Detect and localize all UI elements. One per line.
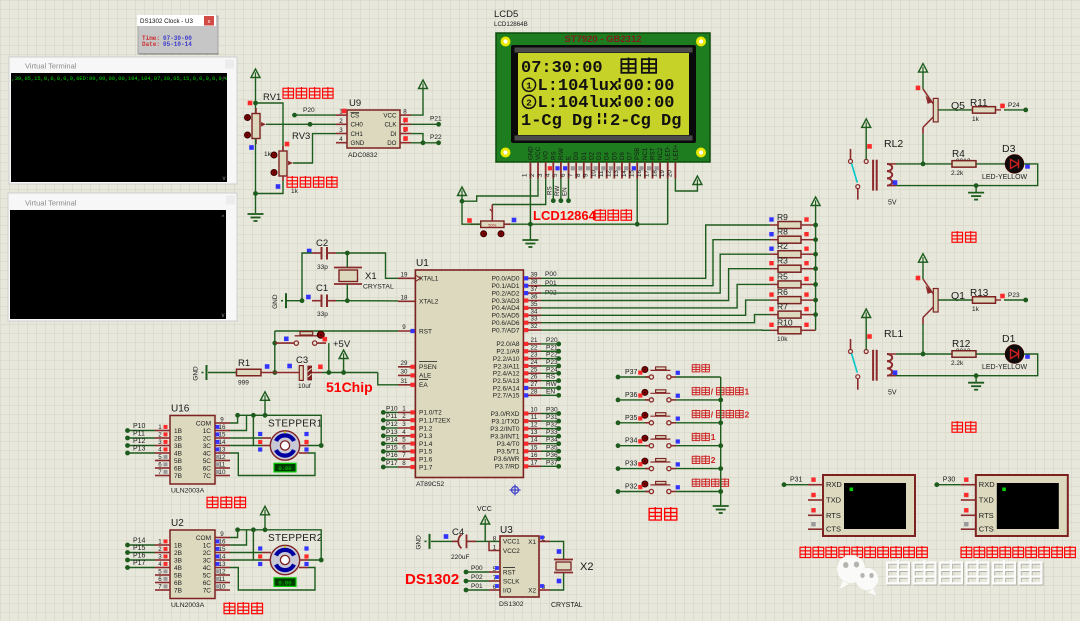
svg-text:12: 12: [219, 569, 226, 576]
svg-text:R9: R9: [777, 212, 788, 222]
svg-text:,30,05,15,0,0,0,0,0,0ED:00,00,: ,30,05,15,0,0,0,0,0,0ED:00,00,00,00,104,…: [12, 76, 232, 82]
svg-text:R8: R8: [777, 227, 788, 237]
wire to LED D1: [976, 353, 1006, 355]
svg-text:8: 8: [493, 535, 497, 542]
svg-text:1: 1: [745, 386, 750, 396]
power symbol for Q1: [919, 254, 928, 279]
svg-text:5: 5: [402, 437, 406, 444]
svg-text:TXD: TXD: [826, 496, 842, 505]
reset wire to RST: [275, 330, 398, 332]
svg-text:36: 36: [531, 294, 538, 301]
svg-text:10: 10: [531, 407, 538, 414]
svg-text:4B: 4B: [174, 565, 182, 572]
svg-text:P0.4/AD4: P0.4/AD4: [492, 305, 520, 312]
wire DI to DO row: [411, 134, 423, 143]
power arrow for STEPPER1: [261, 392, 270, 416]
svg-text:P2.1/A9: P2.1/A9: [496, 349, 520, 356]
svg-text:P1.0/T2: P1.0/T2: [419, 410, 442, 417]
svg-text:6: 6: [402, 444, 406, 451]
svg-text:14: 14: [531, 437, 538, 444]
svg-text:P0.6/AD6: P0.6/AD6: [492, 320, 520, 327]
svg-text:1: 1: [493, 545, 497, 552]
svg-text:P2.3/A11: P2.3/A11: [493, 363, 520, 370]
net flag RS (LCD pin4): [552, 179, 554, 201]
wire RV1 wiper to ADC CH0: [266, 123, 336, 125]
push button P37: [616, 367, 721, 380]
svg-text:CTS: CTS: [826, 525, 841, 534]
net flag P20: [292, 113, 297, 118]
gnd bus under LCD: [504, 223, 668, 225]
svg-text:5V: 5V: [888, 390, 897, 397]
svg-text:11: 11: [219, 576, 226, 583]
ground for C4: [416, 534, 453, 550]
svg-text:P24: P24: [1008, 102, 1020, 109]
svg-text:26: 26: [531, 374, 538, 381]
svg-text:R6: R6: [777, 287, 788, 297]
push button P33: [616, 458, 721, 471]
svg-text:2: 2: [339, 118, 343, 125]
svg-text:15: 15: [531, 444, 538, 451]
svg-text:P00: P00: [471, 565, 483, 572]
svg-text:17: 17: [531, 459, 538, 466]
vertical +5V branch at reset: [274, 331, 276, 373]
svg-text:Virtual Terminal: Virtual Terminal: [25, 199, 77, 208]
power arrow for STEPPER2: [261, 506, 270, 530]
svg-text:5: 5: [158, 454, 162, 461]
label 光强模拟 (RV1): [283, 87, 294, 98]
svg-text:ALE: ALE: [419, 373, 432, 380]
svg-text:3: 3: [158, 554, 162, 561]
wire coil to R12: [896, 353, 952, 355]
svg-text:00:00: 00:00: [624, 94, 675, 113]
svg-text:CRYSTAL: CRYSTAL: [551, 602, 583, 609]
svg-text:P3.7/RD: P3.7/RD: [495, 464, 520, 471]
svg-text:3: 3: [158, 439, 162, 446]
svg-text:X1: X1: [528, 539, 536, 546]
svg-text:R5: R5: [777, 271, 788, 281]
svg-text:EA: EA: [419, 382, 428, 389]
ULN2003A driver U2: [155, 518, 230, 609]
svg-text:8: 8: [402, 460, 406, 467]
svg-text:STEPPER2: STEPPER2: [268, 533, 323, 544]
svg-text:DS1302 Clock - U3: DS1302 Clock - U3: [140, 18, 194, 25]
svg-text:16: 16: [219, 539, 226, 546]
svg-text:32: 32: [531, 323, 538, 330]
ground for RL2: [968, 186, 984, 200]
power symbol above RV1: [251, 69, 260, 114]
svg-text:P3.4/T0: P3.4/T0: [497, 441, 520, 448]
virtual terminal instrument (P30): [961, 475, 1068, 536]
svg-text:COM: COM: [196, 535, 211, 542]
stepper motor STEPPER1: [258, 419, 323, 461]
svg-text:P36: P36: [546, 452, 558, 459]
svg-text:RTS: RTS: [826, 511, 841, 520]
svg-text:U9: U9: [349, 98, 361, 109]
svg-text:P0.2/AD2: P0.2/AD2: [492, 290, 520, 297]
svg-text:12: 12: [606, 170, 613, 177]
power arrow for U9 VCC: [411, 80, 428, 115]
svg-text:18: 18: [401, 294, 408, 301]
svg-text:35: 35: [531, 301, 538, 308]
LED D3 LED-YELLOW: [982, 143, 1030, 181]
svg-text:RS: RS: [550, 151, 557, 160]
svg-text:D5: D5: [611, 152, 618, 160]
svg-text:Virtual Terminal: Virtual Terminal: [25, 62, 77, 71]
ground for keypad: [713, 506, 729, 513]
svg-text:D2: D2: [588, 152, 595, 160]
svg-text:14: 14: [219, 439, 226, 446]
svg-text:39: 39: [531, 271, 538, 278]
svg-text:5: 5: [158, 569, 162, 576]
svg-text:2: 2: [158, 432, 162, 439]
svg-text:^: ^: [223, 77, 226, 83]
label for P34: [692, 432, 715, 442]
svg-text:LED-: LED-: [665, 146, 672, 160]
label 光强模拟 (RV3): [287, 176, 298, 187]
label 灯光 (top): [952, 231, 963, 242]
svg-text:D7: D7: [627, 152, 634, 160]
svg-text:16: 16: [531, 452, 538, 459]
resistor R13 (base): [938, 288, 1005, 313]
svg-text:P1.3: P1.3: [419, 433, 433, 440]
svg-text:13: 13: [531, 429, 538, 436]
svg-text:VO: VO: [543, 151, 550, 160]
svg-text:P11: P11: [386, 413, 397, 420]
svg-text:R1: R1: [238, 358, 250, 369]
wire RV3 bottom: [256, 181, 284, 194]
svg-text:6: 6: [158, 576, 162, 583]
svg-text:D3: D3: [1002, 143, 1016, 155]
svg-text:5B: 5B: [174, 458, 182, 465]
LED return wire: [896, 354, 1038, 376]
svg-text:P20: P20: [303, 107, 315, 114]
svg-text:DO: DO: [387, 140, 396, 147]
svg-text:EN: EN: [546, 388, 555, 395]
svg-text:P1.1/T2EX: P1.1/T2EX: [419, 418, 451, 425]
svg-text:1k: 1k: [264, 151, 272, 158]
resistor R6: [769, 287, 815, 304]
svg-text:D3: D3: [596, 152, 603, 160]
svg-text:7: 7: [567, 173, 574, 177]
label for P35: [692, 409, 749, 419]
svg-text:C1: C1: [316, 283, 328, 294]
rpm display for STEPPER2: [274, 578, 296, 587]
svg-text:VCC1: VCC1: [503, 539, 520, 546]
net flag P31: [782, 477, 808, 488]
wire button right to +5V row: [328, 343, 330, 372]
transistor Q1 (PNP 9012): [916, 276, 965, 324]
label 遮光帘 (2): [224, 602, 235, 614]
svg-text:LCD5: LCD5: [494, 9, 518, 20]
svg-text:18: 18: [651, 170, 658, 177]
LCD pin stubs and numbers: [522, 162, 676, 179]
svg-text:16: 16: [219, 424, 226, 431]
svg-text:14: 14: [219, 554, 226, 561]
power symbol for Q5: [919, 64, 928, 89]
potentiometer RV3: [271, 131, 310, 195]
svg-text:LED+: LED+: [672, 144, 679, 160]
svg-text:GND: GND: [351, 140, 365, 147]
net flags P10..P13: [125, 423, 155, 455]
svg-text:3C: 3C: [203, 443, 212, 450]
LCD12864 display module LCD5: [496, 33, 710, 162]
svg-text:2B: 2B: [174, 435, 182, 442]
svg-text:2.2k: 2.2k: [951, 360, 964, 367]
svg-text:D6: D6: [619, 152, 626, 160]
svg-text:7B: 7B: [174, 473, 182, 480]
svg-text:P2.7/A15: P2.7/A15: [493, 393, 520, 400]
svg-text:2-Cg Dg: 2-Cg Dg: [610, 112, 681, 131]
push button (reset): [275, 331, 327, 345]
svg-text:19: 19: [401, 271, 408, 278]
svg-text:27: 27: [531, 381, 538, 388]
svg-text:3: 3: [537, 173, 544, 177]
svg-text:P0.7/AD7: P0.7/AD7: [492, 327, 520, 334]
label 单片机端发送数据监测: [800, 546, 811, 558]
node RV3 bottom join: [253, 191, 258, 196]
svg-text:R3: R3: [777, 256, 788, 266]
svg-text:P3.0/RXD: P3.0/RXD: [491, 411, 520, 418]
net flags P30..P37 on MCU right: [541, 407, 561, 469]
wire to RV3 top: [256, 103, 284, 150]
relay RL2: [873, 138, 903, 207]
svg-text:NC1: NC1: [642, 147, 649, 160]
ADC U9 ADC0832: [336, 98, 411, 159]
svg-text:30: 30: [401, 368, 408, 375]
wire collector down to relay row: [922, 324, 924, 354]
svg-text:RL2: RL2: [884, 138, 903, 150]
ground below RV1: [248, 214, 264, 221]
svg-text:RL1: RL1: [884, 328, 903, 340]
svg-text:3: 3: [339, 127, 343, 134]
svg-text:P23: P23: [1008, 292, 1020, 299]
ground for crystal: [272, 293, 302, 309]
svg-text:X1: X1: [365, 271, 377, 282]
svg-text:7B: 7B: [174, 587, 182, 594]
svg-text:CS: CS: [351, 112, 360, 119]
svg-text:GND: GND: [527, 146, 534, 160]
svg-text:EN: EN: [562, 187, 569, 196]
wire pot left to +V arrow: [458, 187, 481, 224]
svg-text:37: 37: [531, 286, 538, 293]
svg-text:P2.0/A8: P2.0/A8: [496, 341, 520, 348]
svg-text:P17: P17: [133, 560, 146, 567]
svg-text:U3: U3: [500, 525, 513, 536]
svg-text:9: 9: [220, 531, 224, 538]
svg-text:D1: D1: [581, 152, 588, 160]
svg-text:8: 8: [575, 173, 582, 177]
svg-text:1B: 1B: [174, 542, 182, 549]
wire LCD pin20 LED+ to power: [675, 176, 702, 191]
net flag EN (LCD pin6): [568, 179, 570, 201]
wire R1 to C3: [261, 372, 299, 374]
svg-text:P15: P15: [133, 545, 146, 552]
keypad gnd bus: [720, 377, 722, 506]
svg-text:P2.2/A10: P2.2/A10: [493, 356, 520, 363]
svg-text:ADC0832: ADC0832: [348, 152, 378, 159]
svg-text:P1.7: P1.7: [419, 464, 433, 471]
svg-text:1k: 1k: [972, 306, 980, 313]
svg-text:P21: P21: [546, 344, 558, 351]
svg-text:28: 28: [531, 388, 538, 395]
relay switch contact: [849, 339, 869, 390]
svg-text:U16: U16: [171, 404, 190, 415]
svg-text:13: 13: [613, 170, 620, 177]
push button P34: [616, 435, 721, 448]
svg-text:^: ^: [222, 215, 225, 221]
svg-text:07:30:00: 07:30:00: [521, 59, 603, 78]
svg-text:X2: X2: [580, 561, 593, 573]
label for P32: [692, 478, 728, 486]
svg-text:12: 12: [531, 422, 538, 429]
svg-text:2B: 2B: [174, 550, 182, 557]
wire LCD pin3 VO to pot wiper: [492, 179, 545, 205]
svg-text:RS: RS: [546, 374, 556, 381]
svg-text:P02: P02: [471, 574, 483, 581]
svg-text:3B: 3B: [174, 443, 182, 450]
svg-text:P1.5: P1.5: [419, 449, 433, 456]
stepper bus wires: [230, 413, 324, 476]
svg-text:E: E: [566, 156, 573, 160]
svg-text:CLK: CLK: [384, 122, 397, 129]
svg-text:P3.6/WR: P3.6/WR: [493, 456, 519, 463]
svg-text:5B: 5B: [174, 572, 182, 579]
svg-text:2: 2: [526, 97, 532, 108]
svg-text:10: 10: [219, 469, 226, 476]
svg-text:1: 1: [402, 405, 406, 412]
wire LCD pin1 GND down: [529, 179, 531, 225]
svg-text:RV3: RV3: [292, 131, 310, 142]
svg-text:RV1: RV1: [263, 92, 281, 103]
svg-text:P35: P35: [546, 444, 558, 451]
svg-text:X2: X2: [528, 588, 536, 595]
svg-text:U1: U1: [416, 258, 429, 269]
svg-text:13: 13: [219, 447, 226, 454]
svg-text:P00: P00: [545, 271, 557, 278]
svg-text:RW: RW: [554, 186, 561, 196]
svg-text:2C: 2C: [203, 550, 212, 557]
svg-text:2C: 2C: [203, 435, 212, 442]
svg-text:6C: 6C: [203, 580, 212, 587]
node: RV1 top junction: [253, 101, 258, 106]
svg-text:P32: P32: [625, 484, 638, 491]
wire C3 to +5V node: [312, 372, 322, 374]
svg-text:17: 17: [644, 170, 651, 177]
net flag P30: [934, 477, 960, 488]
svg-text:P37: P37: [546, 459, 558, 466]
rpm display for STEPPER1: [274, 463, 296, 472]
svg-text:RTS: RTS: [979, 511, 994, 520]
svg-text:R/W: R/W: [558, 148, 565, 160]
red square RV1 top: [248, 101, 253, 106]
svg-text:P22: P22: [546, 352, 558, 359]
svg-text:2: 2: [529, 173, 536, 177]
capacitor C4 220uF: [444, 527, 476, 561]
svg-text:10: 10: [219, 584, 226, 591]
svg-text:STEPPER1: STEPPER1: [268, 419, 323, 430]
svg-text:P30: P30: [546, 407, 558, 414]
svg-text:15: 15: [628, 170, 635, 177]
svg-text:6: 6: [560, 173, 567, 177]
svg-text:1k: 1k: [972, 116, 980, 123]
svg-text:P1.2: P1.2: [419, 425, 433, 432]
svg-text:+5V: +5V: [333, 339, 351, 350]
svg-text:4C: 4C: [203, 565, 212, 572]
svg-text:9: 9: [402, 324, 406, 331]
svg-text:6B: 6B: [174, 580, 182, 587]
svg-text:P3.5/T1: P3.5/T1: [497, 449, 520, 456]
svg-text:L:104lux: L:104lux: [538, 94, 620, 113]
svg-text:ULN2003A: ULN2003A: [171, 488, 205, 495]
RTC U3 DS1302: [489, 525, 550, 608]
svg-text:R2: R2: [777, 241, 788, 251]
svg-text:P30: P30: [943, 477, 956, 484]
stepper bus wires: [230, 527, 324, 590]
svg-text:P0.1/AD1: P0.1/AD1: [492, 283, 520, 290]
crystal net wires: [302, 253, 312, 301]
svg-text:P3.2/INT0: P3.2/INT0: [490, 426, 520, 433]
svg-text:P24: P24: [546, 366, 558, 373]
svg-text:P37: P37: [625, 369, 638, 376]
svg-text:P0.3/AD3: P0.3/AD3: [492, 298, 520, 305]
resistor R1: [237, 358, 270, 387]
svg-text:P11: P11: [133, 431, 145, 438]
svg-text:P33: P33: [625, 461, 638, 468]
svg-text:VCC: VCC: [477, 506, 492, 513]
potentiometer RV1: [245, 92, 282, 158]
svg-text:GND: GND: [193, 366, 200, 381]
svg-text:P17: P17: [386, 460, 398, 467]
svg-text:4: 4: [158, 561, 162, 568]
svg-text:33: 33: [531, 316, 538, 323]
svg-text:v: v: [222, 313, 225, 319]
svg-text:24: 24: [531, 359, 538, 366]
svg-text:XTAL2: XTAL2: [419, 299, 439, 306]
svg-text:2: 2: [402, 413, 406, 420]
svg-text:1: 1: [158, 424, 162, 431]
svg-text:AT89C52: AT89C52: [416, 481, 444, 488]
svg-text:10uf: 10uf: [298, 383, 311, 390]
svg-text:P10: P10: [386, 405, 398, 412]
svg-text:P36: P36: [625, 392, 638, 399]
svg-text:v: v: [223, 176, 226, 182]
svg-text:16: 16: [636, 170, 643, 177]
svg-text:RST: RST: [503, 569, 516, 576]
net flags P10..P17 on MCU left: [381, 405, 398, 469]
push button P32: [616, 481, 721, 494]
svg-text:GND: GND: [272, 294, 279, 309]
svg-text:C3: C3: [296, 355, 308, 366]
svg-text:15: 15: [219, 546, 226, 553]
svg-text:4B: 4B: [174, 450, 182, 457]
wire C4 to U3 VCC pins: [476, 540, 500, 542]
svg-text:10: 10: [590, 170, 597, 177]
svg-text:D1: D1: [1002, 333, 1016, 345]
resistor R9: [769, 212, 815, 229]
svg-text:P31: P31: [790, 477, 803, 484]
svg-text:12: 12: [219, 454, 226, 461]
svg-text:GND: GND: [416, 535, 423, 550]
svg-text:RST: RST: [649, 147, 656, 160]
resistor R12 2.2k: [951, 339, 976, 367]
svg-text:LCD12864: LCD12864: [533, 208, 597, 223]
resistor R3: [769, 256, 815, 273]
label 按键: [649, 507, 661, 520]
svg-text:5C: 5C: [203, 572, 212, 579]
resistor R5: [769, 271, 815, 288]
svg-text:7: 7: [158, 469, 162, 476]
svg-text:19: 19: [659, 170, 666, 177]
